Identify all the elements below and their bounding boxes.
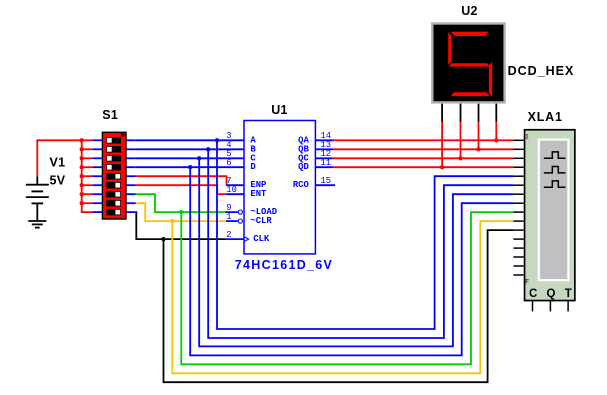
switch S1 pos 4 xyxy=(106,164,121,170)
switch S1 pos 5 xyxy=(106,173,121,179)
wire U2 pin 2 xyxy=(460,122,462,159)
pin XLA1.1 stub xyxy=(513,139,523,141)
pin U1.15 RCO stub xyxy=(315,184,335,186)
wire bus stub row 6 xyxy=(82,184,93,186)
pin XLA1.13 stub xyxy=(513,247,523,249)
svg-text:D: D xyxy=(250,162,255,172)
pin S1 left 2 xyxy=(93,148,103,150)
pin S1 left 4 xyxy=(93,166,103,168)
XLA1 waveform glyph 2 xyxy=(544,167,566,173)
pin XLA1 C xyxy=(532,301,534,311)
wire CLK (black, S1.9) xyxy=(136,212,226,239)
S1 pin1 mark xyxy=(121,133,125,137)
pin XLA1.8 stub xyxy=(513,202,523,204)
switch S1 pos 8 xyxy=(106,200,121,206)
pin XLA1.15 stub xyxy=(513,265,523,267)
pin S1 left 3 xyxy=(93,157,103,159)
switch S1 pos 2 xyxy=(106,146,121,152)
pin XLA1 Q xyxy=(549,301,551,311)
battery V1 xyxy=(36,176,38,184)
wire blue loop A to XLA1 ch5 xyxy=(217,140,513,329)
pin U2.2 xyxy=(460,104,462,122)
pin S1 right 1 xyxy=(126,139,136,141)
wire QD to XLA1 xyxy=(333,166,514,168)
wire ~CLR (orange, S1.8) xyxy=(136,203,226,221)
junction bus row 4 xyxy=(80,165,84,169)
pin U1.14 QA stub xyxy=(315,139,333,141)
switch S1 pos 7 xyxy=(106,191,121,197)
pin S1 right 9 xyxy=(126,211,136,213)
wire QC to XLA1 xyxy=(333,157,514,159)
wire U2 pin 3 xyxy=(478,122,480,150)
svg-text:5V: 5V xyxy=(50,173,66,187)
wire orange loop to XLA1 ch10 xyxy=(172,221,513,373)
junction bus row 8 xyxy=(80,201,84,205)
pin U2.3 xyxy=(478,104,480,122)
pin U1.10 ENT stub xyxy=(226,193,244,195)
pin S1 right 4 xyxy=(126,166,136,168)
wire U2 pin 1 xyxy=(441,122,443,168)
wire A (S1.1 to U1 A) xyxy=(136,139,244,141)
svg-text:10: 10 xyxy=(226,185,237,195)
svg-text:V1: V1 xyxy=(50,155,66,169)
pin U2.1 xyxy=(441,104,443,122)
svg-text:QD: QD xyxy=(298,162,309,172)
pin XLA1.4 stub xyxy=(513,166,523,168)
wire black loop to XLA1 ch11 xyxy=(164,230,514,382)
svg-text:F: F xyxy=(525,280,529,286)
wire V1 to S1 bus xyxy=(37,140,81,176)
wire blue loop D to XLA1 ch8 xyxy=(190,167,513,355)
ground xyxy=(28,220,46,222)
svg-text:1: 1 xyxy=(226,212,231,222)
wire blue loop B to XLA1 ch6 xyxy=(208,149,513,338)
pin U1.12 QC stub xyxy=(315,157,333,159)
svg-text:DCD_HEX: DCD_HEX xyxy=(508,64,575,78)
segment g xyxy=(449,63,491,66)
junction U2 pin 4 xyxy=(494,138,498,142)
svg-text:CLK: CLK xyxy=(253,234,270,244)
segment f xyxy=(448,32,451,64)
XLA1 waveform glyph 1 xyxy=(544,152,566,158)
svg-text:C: C xyxy=(529,288,538,300)
pin U1.2 CLK stub + clock caret xyxy=(226,238,244,240)
XLA1 waveform glyph 3 xyxy=(544,181,566,187)
switch S1 pos 9 xyxy=(106,209,121,215)
pin XLA1.7 stub xyxy=(513,193,523,195)
logic analyzer XLA1 body xyxy=(525,130,575,301)
pin XLA1.16 stub xyxy=(513,274,523,276)
wire green loop to XLA1 ch9 xyxy=(181,212,513,364)
svg-text:U1: U1 xyxy=(271,103,288,117)
svg-text:S1: S1 xyxy=(102,108,118,122)
pin S1 right 8 xyxy=(126,202,136,204)
pin S1 left 1 xyxy=(93,139,103,141)
svg-text:T: T xyxy=(565,288,572,300)
pin S1 left 5 xyxy=(93,175,103,177)
pin U1.7 ENP stub xyxy=(226,184,244,186)
switch S1 pos 1 xyxy=(106,137,121,143)
wire bus stub row 4 xyxy=(82,166,93,168)
svg-text:15: 15 xyxy=(321,176,332,186)
pin U1.11 QD stub xyxy=(315,166,333,168)
wire QB to XLA1 xyxy=(333,148,514,150)
wire bus stub row 1 xyxy=(82,139,93,141)
pin XLA1.2 stub xyxy=(513,148,523,150)
pin S1 left 9 xyxy=(93,211,103,213)
wire ENT (red, S1.6 to U1 ENT) xyxy=(136,185,226,194)
svg-text:RCO: RCO xyxy=(293,180,310,190)
svg-text:2: 2 xyxy=(226,230,231,240)
segment d xyxy=(451,92,490,96)
pin XLA1.3 stub xyxy=(513,157,523,159)
wire QA to XLA1 xyxy=(333,139,514,141)
wire bus stub row 2 xyxy=(82,148,93,150)
svg-text:11: 11 xyxy=(321,158,332,168)
junction green xyxy=(179,210,183,214)
wire bus stub row 5 xyxy=(82,175,93,177)
switch S1 pos 6 xyxy=(106,182,121,188)
wire C (S1.3 to U1 C) xyxy=(136,157,244,159)
pin S1 right 2 xyxy=(126,148,136,150)
wire bus stub row 8 xyxy=(82,202,93,204)
pin U1.1 ~CLR stub + bubble xyxy=(226,220,238,222)
pin XLA1 T xyxy=(567,301,569,311)
XLA1 screen panel xyxy=(539,140,569,281)
DIP switch S1 xyxy=(102,132,126,219)
svg-text:74HC161D_6V: 74HC161D_6V xyxy=(235,258,333,272)
svg-text:Q: Q xyxy=(547,288,556,300)
junction bus row 3 xyxy=(80,156,84,160)
junction bus row 1 xyxy=(80,138,84,142)
pin XLA1.11 stub xyxy=(513,229,523,231)
junction orange xyxy=(170,219,174,223)
switch S1 pos 3 xyxy=(106,155,121,161)
junction bus row 6 xyxy=(80,183,84,187)
segment c xyxy=(489,62,492,97)
junction U2 pin 3 xyxy=(476,147,480,151)
junction B xyxy=(206,147,210,151)
junction black xyxy=(161,237,165,241)
segment a xyxy=(451,32,489,36)
wire B (S1.2 to U1 B) xyxy=(136,148,244,150)
wire bus stub row 3 xyxy=(82,157,93,159)
pin S1 left 8 xyxy=(93,202,103,204)
wire bus stub row 7 xyxy=(82,193,93,195)
pin S1 right 7 xyxy=(126,193,136,195)
svg-text:U2: U2 xyxy=(461,4,478,18)
junction C xyxy=(197,156,201,160)
pin U2.4 xyxy=(495,104,497,122)
junction U2 pin 2 xyxy=(458,156,462,160)
junction bus row 5 xyxy=(80,174,84,178)
pin S1 right 6 xyxy=(126,184,136,186)
pin XLA1.9 stub xyxy=(513,211,523,213)
wire blue loop C to XLA1 ch7 xyxy=(199,158,513,346)
wire D (S1.4 to U1 D) xyxy=(136,166,244,168)
wire ~LOAD (green, S1.7) xyxy=(136,194,226,212)
svg-text:~CLR: ~CLR xyxy=(250,216,272,226)
wire ENP (red, S1.5 to U1 ENP) xyxy=(136,176,227,185)
pin S1 right 3 xyxy=(126,157,136,159)
display U2 DCD_HEX xyxy=(432,24,504,103)
junction bus row 2 xyxy=(80,147,84,151)
pin XLA1.12 stub xyxy=(513,238,523,240)
junction bus row 7 xyxy=(80,192,84,196)
junction A xyxy=(215,138,219,142)
pin XLA1.5 stub xyxy=(513,175,523,177)
red supply bus xyxy=(82,140,93,212)
IC U1 74HC161 xyxy=(244,121,315,254)
pin S1 right 5 xyxy=(126,175,136,177)
junction D xyxy=(188,165,192,169)
svg-text:6: 6 xyxy=(226,158,231,168)
pin U1.9 ~LOAD stub + bubble xyxy=(226,211,238,213)
pin XLA1.14 stub xyxy=(513,256,523,258)
pin S1 left 6 xyxy=(93,184,103,186)
wire U2 pin 4 xyxy=(495,122,497,141)
svg-text:XLA1: XLA1 xyxy=(528,110,563,124)
svg-text:ENT: ENT xyxy=(250,189,267,199)
pin XLA1.10 stub xyxy=(513,220,523,222)
pin U1.13 QB stub xyxy=(315,148,333,150)
pin XLA1.6 stub xyxy=(513,184,523,186)
junction U2 pin 1 xyxy=(440,165,444,169)
pin S1 left 7 xyxy=(93,193,103,195)
